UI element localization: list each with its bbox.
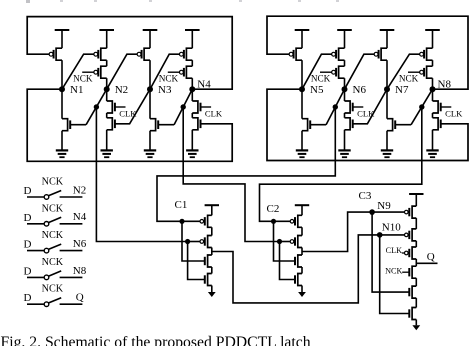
- wire: [211, 248, 213, 256]
- wire D input (row N2): [27, 196, 44, 198]
- wire PMOS drain to node N6: [344, 78, 346, 89]
- svg-text:D: D: [24, 212, 32, 224]
- junction node N2 tap: [94, 104, 99, 109]
- wire CLK stub: [402, 252, 405, 254]
- wire PMOS drain to node N5: [301, 60, 303, 89]
- svg-text:NCK: NCK: [385, 267, 402, 276]
- NCK gate stub of column N6: [320, 71, 332, 73]
- wire: [415, 278, 417, 286]
- NMOS transistor (bottom) of column N8: [432, 113, 434, 118]
- wire NMOS gate of N7 stub: [395, 124, 411, 126]
- wire NMOS source to ground (column N6): [344, 130, 346, 151]
- wire NMOS source to ground (column N7): [386, 131, 388, 151]
- PMOS transistor (top) of column N5: [296, 48, 302, 60]
- svg-text:N1: N1: [70, 84, 83, 96]
- wire diagonal N7 NMOS gate to node N8: [411, 89, 432, 125]
- svg-text:NCK: NCK: [42, 230, 64, 241]
- wire: [211, 227, 213, 235]
- wire NMOS gate of N5 stub: [310, 124, 326, 126]
- wire NMOS source to ground (column N3): [149, 131, 151, 151]
- junction node N8 tap: [419, 104, 424, 109]
- wire node N4 to NMOS drain: [191, 89, 193, 101]
- node N3: [147, 86, 153, 92]
- wire node N1 to NMOS drain: [61, 89, 63, 119]
- wire cross-couple N7 to PMOS gate of N8: [387, 54, 420, 89]
- svg-text:NCK: NCK: [42, 284, 64, 295]
- node N5: [299, 86, 305, 92]
- VDD supply for column N6: [337, 29, 352, 31]
- svg-text:D: D: [24, 265, 32, 277]
- output NMOS Q5 (gate N9): [412, 286, 416, 298]
- PMOS transistor (top) of column N3: [144, 48, 150, 60]
- node N9: [369, 209, 375, 215]
- wire node N8 to NMOS drain: [432, 89, 434, 101]
- svg-text:N10: N10: [382, 222, 401, 234]
- wire NMOS source to ground (column N5): [301, 131, 303, 151]
- wire C1 input to PMOS gate: [182, 220, 200, 222]
- wire PMOS drain to node N4: [191, 78, 193, 89]
- NMOS transistor (bottom) of column N6: [344, 113, 346, 118]
- node C1 input dot: [179, 219, 184, 224]
- CLK gate stub of column N2: [115, 106, 126, 108]
- node N4: [189, 86, 195, 92]
- switch NCK (row Q): [44, 302, 49, 307]
- svg-text:NCK: NCK: [399, 73, 419, 83]
- VDD supply for column N2: [99, 29, 114, 31]
- wire C1 input down to NMOS gate: [182, 221, 205, 261]
- svg-text:N2: N2: [115, 84, 128, 96]
- switch NCK (row N6): [44, 248, 49, 253]
- PMOS transistor (top) of column N2: [101, 48, 107, 60]
- wire: [301, 227, 303, 235]
- wire C2 output to node N9 (net C3): [302, 212, 372, 251]
- wire PMOS drain to node N3: [149, 60, 151, 89]
- output PMOS Q3 (gate CLK): [412, 247, 416, 259]
- output NMOS Q6 (gate N10): [412, 308, 416, 320]
- wire N10 to PMOS gate: [380, 234, 405, 236]
- svg-text:Q: Q: [427, 251, 435, 263]
- ground (column N1): [56, 149, 68, 151]
- wire NCK stub: [402, 271, 409, 273]
- wire output segment (row N2): [60, 196, 83, 198]
- svg-text:D: D: [24, 292, 32, 304]
- NMOS transistor of column N5: [302, 119, 308, 131]
- svg-text:N8: N8: [438, 79, 452, 91]
- VDD supply for column N8: [425, 29, 440, 31]
- PMOS transistor (top) of column N6: [339, 48, 345, 60]
- wire NMOS gate of N3 stub: [158, 124, 174, 126]
- wire N10 down to NMOS Q6 gate: [380, 235, 410, 314]
- NMOS transistor CLK (top) of column N2: [107, 101, 113, 113]
- wire cross-couple N1 to PMOS gate of N2: [62, 54, 94, 89]
- svg-text:N4: N4: [73, 211, 87, 223]
- svg-text:NCK: NCK: [42, 257, 64, 268]
- svg-text:C1: C1: [175, 199, 188, 211]
- wire cross-couple N5 to PMOS gate of N6: [302, 54, 332, 89]
- PMOS transistor (top) of column N8: [427, 48, 433, 60]
- cropped text fragments at top: [26, 0, 30, 3]
- wire PMOS drain to node N7: [386, 60, 388, 89]
- PMOS transistor NCK (second) of column N6: [344, 60, 346, 66]
- op C2 PMOS U2b: [298, 236, 302, 248]
- wire: [211, 286, 213, 293]
- NMOS transistor of column N7: [387, 119, 393, 131]
- wire diagonal N5 NMOS gate to node N6: [326, 89, 344, 125]
- node N2: [104, 86, 110, 92]
- wire: [415, 241, 417, 247]
- NMOS transistor of column N3: [150, 119, 156, 131]
- svg-text:C3: C3: [359, 190, 372, 202]
- svg-text:N6: N6: [73, 238, 87, 250]
- node C1 second input dot: [185, 239, 190, 244]
- node N8: [430, 86, 436, 92]
- node N10: [377, 232, 383, 238]
- NCK gate stub of column N2: [82, 71, 94, 73]
- switch NCK (row N8): [44, 275, 49, 280]
- svg-text:N3: N3: [158, 84, 172, 96]
- wire: [415, 298, 417, 307]
- svg-text:N8: N8: [73, 265, 87, 277]
- PMOS transistor NCK (second) of column N4: [191, 60, 193, 66]
- ground (column N4): [186, 149, 198, 151]
- op C1 NMOS U1d: [208, 274, 212, 286]
- ground (column N6): [338, 149, 350, 151]
- NMOS transistor CLK (top) of column N8: [433, 101, 439, 113]
- VDD supply for column N1: [55, 29, 70, 31]
- wire output segment (row Q): [60, 303, 83, 305]
- svg-text:N2: N2: [73, 184, 86, 196]
- wire: [301, 248, 303, 256]
- CLK gate stub of column N8: [441, 106, 452, 108]
- wire NMOS source to ground (column N2): [106, 130, 108, 151]
- NCK gate stub of column N8: [408, 71, 420, 73]
- CLK gate stub of column N6: [353, 106, 364, 108]
- NMOS transistor (bottom) of column N2: [106, 113, 108, 118]
- switch NCK (row N2): [44, 195, 49, 200]
- wire NMOS source to ground (column N1): [61, 131, 63, 151]
- svg-text:D: D: [24, 239, 32, 251]
- wire: [415, 259, 417, 266]
- wire node N7 to NMOS drain: [386, 89, 388, 119]
- ground (C1 stack, arrow): [208, 292, 216, 297]
- wire N9 to PMOS gate: [372, 211, 404, 213]
- node C2 second input dot: [277, 239, 282, 244]
- wire cross-couple N6 to PMOS gate of N7: [345, 54, 375, 89]
- node C2 input dot: [271, 219, 276, 224]
- switch NCK (row N4): [44, 222, 49, 227]
- wire N2 tap to C1 second input: [96, 107, 187, 242]
- wire C2 second input to PMOS gate: [280, 241, 291, 243]
- wire output Q: [416, 262, 437, 264]
- svg-text:Fig. 2. Schematic of the propo: Fig. 2. Schematic of the proposed PDDCTL…: [1, 334, 311, 346]
- VDD supply for column N7: [380, 29, 395, 31]
- wire node N2 to NMOS drain: [106, 89, 108, 101]
- wire feedback loop N8 to N5 PMOS gate (box outline top): [267, 16, 468, 89]
- VDD supply for column N5: [295, 29, 310, 31]
- svg-text:NCK: NCK: [159, 73, 179, 83]
- svg-text:N6: N6: [353, 84, 367, 96]
- wire node N6 to NMOS drain: [344, 89, 346, 101]
- PMOS transistor NCK (second) of column N8: [432, 60, 434, 66]
- wire diagonal N1 NMOS gate to node N2: [86, 89, 107, 125]
- wire loop N5 to N8 NMOS gate (box outline bottom): [267, 89, 468, 160]
- svg-text:N4: N4: [197, 79, 211, 91]
- output PMOS Q2 (gate N10): [412, 229, 416, 241]
- wire C1 second input to PMOS gate: [188, 241, 200, 243]
- svg-text:N5: N5: [310, 84, 324, 96]
- wire PMOS drain to node N1: [61, 60, 63, 89]
- output PMOS Q1 (gate N9): [412, 206, 416, 218]
- wire output segment (row N6): [60, 250, 83, 252]
- wire loop N1 to N4 NMOS gate (box outline bottom): [27, 89, 232, 161]
- ground (column N2): [101, 149, 113, 151]
- VDD supply C2 stack: [295, 204, 309, 206]
- op C2 NMOS U2d: [298, 274, 302, 286]
- node N1: [59, 86, 65, 92]
- svg-text:NCK: NCK: [73, 73, 93, 83]
- wire N9 down to NMOS Q5 gate: [372, 212, 409, 292]
- wire N4 tap to C2 second input: [183, 107, 279, 242]
- PMOS transistor NCK (second) of column N2: [106, 60, 108, 66]
- wire diagonal N3 NMOS gate to node N4: [174, 89, 192, 125]
- junction node N6 tap: [333, 104, 338, 109]
- wire output segment (row N4): [60, 223, 83, 225]
- svg-text:C2: C2: [267, 203, 280, 215]
- PMOS transistor (top) of column N4: [186, 48, 192, 60]
- wire cross-couple N2 to PMOS gate of N3: [107, 54, 138, 89]
- ground (column N8): [426, 149, 438, 151]
- wire NMOS gate of N1 stub: [70, 124, 86, 126]
- VDD supply for column N4: [185, 29, 200, 31]
- wire: [301, 267, 303, 274]
- svg-text:CLK: CLK: [205, 108, 223, 118]
- svg-text:NCK: NCK: [42, 177, 64, 188]
- ground (column N5): [296, 149, 308, 151]
- wire N8 tap to C2 input (node C2): [260, 107, 422, 221]
- wire output segment (row N8): [60, 276, 83, 278]
- ground (column N7): [381, 149, 393, 151]
- wire: [211, 267, 213, 274]
- op C2 NMOS U2c: [298, 255, 302, 267]
- svg-text:CLK: CLK: [445, 108, 463, 118]
- node N6: [342, 86, 348, 92]
- junction node N4 tap: [181, 104, 186, 109]
- wire NMOS source to ground (column N8): [432, 130, 434, 151]
- wire: [301, 286, 303, 293]
- ground (C2 stack, arrow): [298, 292, 306, 297]
- wire: [415, 218, 417, 229]
- wire C2 second input down to NMOS gate: [280, 242, 296, 280]
- wire node N3 to NMOS drain: [149, 89, 151, 119]
- svg-text:NCK: NCK: [311, 73, 331, 83]
- wire D input (row N6): [27, 250, 44, 252]
- node N7: [384, 86, 390, 92]
- wire NMOS source to ground (column N4): [191, 130, 193, 151]
- wire NMOS gate of N6 to node N7: [353, 89, 387, 124]
- wire: [415, 320, 417, 326]
- wire C1 output to node N10: [212, 235, 380, 303]
- wire cross-couple N3 to PMOS gate of N4: [150, 54, 180, 89]
- wire node N5 to NMOS drain: [301, 89, 303, 119]
- NCK gate stub of column N4: [168, 71, 180, 73]
- wire C2 input to PMOS gate: [274, 220, 291, 222]
- svg-text:Q: Q: [76, 292, 84, 304]
- wire feedback loop N4 to N1 PMOS gate (box outline top): [27, 17, 232, 90]
- wire C1 second input down to NMOS gate: [188, 242, 205, 280]
- NMOS transistor CLK (top) of column N4: [192, 101, 198, 113]
- VDD supply for column N3: [143, 29, 158, 31]
- NMOS transistor (bottom) of column N4: [191, 113, 193, 118]
- svg-text:D: D: [24, 185, 32, 197]
- PMOS transistor (top) of column N1: [56, 48, 62, 60]
- wire D input (row N8): [27, 276, 44, 278]
- op C1 PMOS U1a: [208, 215, 212, 227]
- wire NMOS gate of N2 to node N3: [115, 89, 150, 124]
- wire N6 tap to C1 input (node C1): [157, 107, 335, 221]
- svg-text:CLK: CLK: [386, 246, 402, 255]
- output NMOS Q4 (gate NCK): [412, 266, 416, 278]
- svg-text:NCK: NCK: [42, 203, 64, 214]
- svg-text:N7: N7: [395, 84, 409, 96]
- PMOS transistor (top) of column N7: [381, 48, 387, 60]
- op C1 PMOS U1b: [208, 236, 212, 248]
- wire D input (row N4): [27, 223, 44, 225]
- wire PMOS drain to node N8: [432, 78, 434, 89]
- NMOS transistor CLK (top) of column N6: [345, 101, 351, 113]
- wire D input (row Q): [27, 303, 44, 305]
- wire PMOS drain to node N2: [106, 78, 108, 89]
- op C2 PMOS U2a: [298, 215, 302, 227]
- op C1 NMOS U1c: [208, 255, 212, 267]
- svg-text:N9: N9: [377, 200, 391, 212]
- ground (column N3): [144, 149, 156, 151]
- VDD supply C1 stack: [205, 204, 219, 206]
- ground (output stack, arrow): [412, 325, 420, 330]
- VDD supply output stack: [409, 193, 423, 195]
- NMOS transistor of column N1: [62, 119, 68, 131]
- wire C2 input down to NMOS gate: [274, 221, 296, 261]
- CLK gate stub of column N4: [201, 106, 212, 108]
